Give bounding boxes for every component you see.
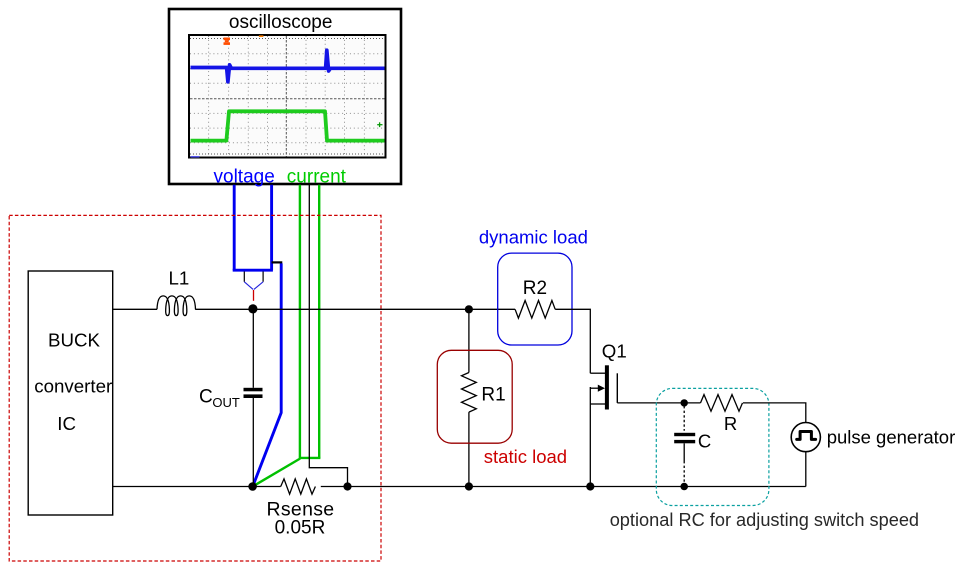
- svg-text:R1: R1: [481, 384, 505, 405]
- pulse generator source: [791, 423, 820, 452]
- trigger marker (orange): [224, 38, 231, 45]
- wire R2 to Q1 drain: [555, 309, 590, 373]
- svg-text:pulse generator: pulse generator: [827, 427, 956, 448]
- svg-text:oscilloscope: oscilloscope: [229, 12, 333, 33]
- wire top (L1 to R2): [195, 308, 515, 310]
- wire pulse generator bottom: [805, 452, 807, 487]
- node F (Q1 source at bottom wire): [586, 482, 594, 490]
- svg-text:L1: L1: [169, 268, 190, 289]
- node G (gate node): [681, 399, 688, 406]
- sense wire (black): [309, 185, 347, 483]
- svg-text:optional RC for adjusting swit: optional RC for adjusting switch speed: [610, 510, 919, 530]
- svg-text:dynamic load: dynamic load: [479, 227, 588, 248]
- current sense leads (green): [253, 185, 321, 487]
- svg-text:R: R: [724, 413, 737, 434]
- capacitor C (dashed optional): [674, 406, 695, 483]
- voltage probe body (blue): [233, 185, 273, 270]
- resistor R1: [462, 309, 477, 486]
- wire top (BUCK to L1): [113, 308, 157, 310]
- resistor Rsense: [281, 479, 316, 494]
- probe tip: [244, 272, 263, 301]
- svg-text:static load: static load: [484, 446, 567, 467]
- svg-text:OUT: OUT: [212, 395, 240, 410]
- wire bottom: [113, 486, 281, 488]
- gate wire Q1 to R: [617, 402, 700, 404]
- svg-text:current: current: [287, 166, 347, 187]
- buck converter boundary (red dashed): [9, 215, 381, 561]
- green level marker right: [377, 122, 382, 127]
- blue marker bottom-left: [191, 156, 200, 158]
- screen center gridlines with ticks: [190, 36, 385, 157]
- resistor R: [701, 395, 743, 412]
- scope screen: [189, 35, 386, 158]
- svg-text:converter: converter: [34, 376, 112, 397]
- wire R to pulse generator: [743, 403, 806, 423]
- svg-text:Q1: Q1: [602, 341, 627, 362]
- small orange dash on top border: [259, 35, 264, 37]
- probe ground lead step (black): [272, 261, 283, 263]
- node C (Rsense right): [343, 482, 351, 490]
- green current trace: [191, 111, 385, 140]
- svg-text:BUCK: BUCK: [48, 329, 100, 350]
- svg-text:voltage: voltage: [214, 166, 275, 187]
- node H (RC bottom): [680, 483, 688, 491]
- cyan box optional RC: [656, 388, 769, 505]
- svg-text:0.05R: 0.05R: [275, 518, 326, 539]
- screen grid: [190, 36, 385, 157]
- red box static load: [437, 350, 512, 443]
- transistor Q1: [590, 365, 617, 486]
- oscilloscope outer box: [169, 9, 401, 184]
- probe ground lead (blue): [253, 263, 281, 486]
- node E (R1 bottom): [465, 482, 473, 490]
- node D (R1 top): [465, 305, 473, 313]
- resistor R2: [515, 300, 555, 318]
- svg-text:C: C: [698, 430, 711, 451]
- node B (COUT bottom / Rsense left): [248, 482, 257, 491]
- blue box dynamic load: [498, 253, 572, 345]
- BUCK converter IC box: [28, 271, 113, 515]
- svg-text:C: C: [199, 387, 213, 408]
- blue voltage trace: [191, 50, 385, 82]
- inductor L1: [157, 296, 195, 316]
- svg-text:R2: R2: [523, 278, 547, 299]
- node A (L1 output / probe point): [248, 304, 257, 313]
- svg-text:IC: IC: [57, 413, 76, 434]
- capacitor COUT: [244, 309, 263, 486]
